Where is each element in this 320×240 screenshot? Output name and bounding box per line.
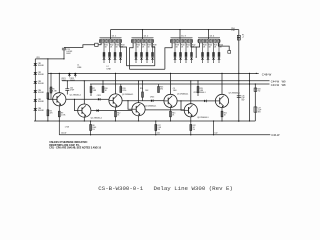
diode CR2	[34, 72, 44, 76]
resistor R8a	[102, 81, 108, 93]
node A junction 2	[63, 58, 64, 59]
resistor R7	[90, 84, 97, 96]
wire R9 to H7	[58, 121, 60, 135]
wire W2 Q2 to Q4	[91, 110, 132, 112]
node H4 V4 junction	[238, 80, 239, 81]
svg-text:2700: 2700	[122, 90, 126, 92]
svg-text:DL 3: DL 3	[181, 36, 186, 38]
pin DL1-2	[103, 40, 105, 42]
resistor R38 column under DL2	[151, 43, 156, 63]
node DL3 out stub	[196, 57, 197, 58]
svg-text:47UF: 47UF	[70, 90, 74, 92]
note text block	[49, 141, 101, 149]
wire collector to H4	[138, 81, 140, 103]
wire input to DL1	[64, 45, 95, 48]
transistor Q7	[215, 93, 239, 108]
wire collector to H3	[58, 73, 60, 92]
pin DL4-3	[204, 40, 206, 42]
node H6 emitter junction	[59, 120, 60, 121]
svg-text:LINE: LINE	[77, 67, 82, 69]
node H6 213 junction	[213, 120, 214, 121]
svg-text:CR11: CR11	[97, 95, 101, 97]
pin DL1-3	[106, 40, 108, 42]
resistor R8	[90, 121, 97, 135]
wire DL1 feed drop	[110, 30, 112, 40]
wire V5 trunk	[249, 73, 251, 121]
pin DL4-8	[217, 40, 219, 42]
wire bus H5	[90, 83, 270, 85]
node H6 V2 junction	[47, 120, 48, 121]
wire collector to H3	[221, 73, 223, 94]
wire DL1 out step	[120, 43, 127, 66]
pin DL4-7	[215, 40, 217, 42]
connector J1 box	[95, 43, 98, 46]
resistor R32 column under DL1	[108, 43, 113, 63]
resistor R37 column under DL2	[146, 43, 151, 63]
resistor R41 column under DL3	[185, 43, 190, 63]
resistor R14	[140, 81, 149, 101]
transistor Q5	[164, 94, 188, 108]
resistor R3	[47, 89, 54, 99]
node H4 R14 junction	[142, 80, 143, 81]
diode CR3	[34, 81, 44, 85]
node H3 V4 junction	[238, 73, 239, 74]
svg-text:750: 750	[231, 30, 234, 32]
resistor R5	[50, 73, 58, 99]
svg-text:C48-W: C48-W	[262, 73, 272, 77]
svg-text:CR1 - CR6 ARE 1N4148; SEE NOTE: CR1 - CR6 ARE 1N4148; SEE NOTES 3 AND 10	[49, 147, 101, 150]
svg-text:C42: C42	[214, 133, 217, 135]
pin DL2-7	[148, 40, 150, 42]
wire V6 trunk	[254, 84, 256, 121]
pin DL4-4	[207, 40, 209, 42]
pin DL3-1	[171, 40, 173, 42]
capacitor C47	[254, 107, 261, 114]
svg-text:Q4 2N3064-1: Q4 2N3064-1	[145, 105, 156, 107]
svg-text:1300: 1300	[173, 90, 177, 92]
resistor R4	[47, 110, 52, 116]
node H3 collector junction	[59, 73, 60, 74]
delay line DL2 body	[132, 39, 154, 43]
node H7 R22 junction	[190, 134, 191, 135]
diode CR4	[34, 90, 44, 94]
wire DL3 out step	[191, 43, 196, 57]
diode CR13	[151, 99, 153, 102]
transistor Q3	[109, 94, 133, 107]
svg-text:470: 470	[50, 113, 53, 115]
node H3 collector junction	[170, 73, 171, 74]
pin DL4-2	[201, 40, 203, 42]
svg-text:UNLESS OTHERWISE INDICATED:: UNLESS OTHERWISE INDICATED:	[49, 141, 88, 144]
resistor R35 column under DL2	[135, 43, 140, 63]
delay line DL3 body	[171, 39, 193, 43]
svg-text:CR1: CR1	[36, 57, 39, 59]
capacitor C23	[62, 48, 73, 59]
wire diode chain trunk	[34, 59, 36, 121]
node V2 base junction	[47, 99, 48, 100]
resistor R13	[120, 84, 126, 93]
capacitor C45	[237, 95, 245, 101]
node H4 collector junction	[190, 80, 191, 81]
wire collector to H4	[190, 81, 192, 104]
net label C48-W	[256, 73, 257, 74]
resistor R31 column under DL1	[103, 43, 108, 63]
wire DL3 feed drop	[179, 30, 181, 40]
wire DL2 feed drop	[142, 30, 144, 40]
svg-text:DL 4: DL 4	[210, 36, 215, 38]
pin DL2-4	[140, 40, 142, 42]
svg-text:1N4148: 1N4148	[38, 92, 44, 94]
node W3 Q4 branch	[127, 100, 128, 101]
wire rail H6	[34, 120, 255, 122]
svg-text:1N964: 1N964	[70, 80, 75, 82]
resistor R42 column under DL3	[190, 43, 195, 63]
pin DL2-6	[146, 40, 148, 42]
svg-text:1N4148: 1N4148	[38, 83, 44, 85]
svg-text:W9: W9	[282, 79, 286, 83]
svg-text:CS-B-W300-0-1 Delay Line W30: CS-B-W300-0-1 Delay Line W300 (Rev E)	[98, 185, 233, 192]
node H4 V5 junction	[249, 80, 250, 81]
diode CR12	[97, 109, 99, 112]
svg-text:Q2 2N3064-1: Q2 2N3064-1	[91, 117, 102, 119]
wire Q1 base	[48, 98, 53, 100]
pin DL2-8	[151, 40, 153, 42]
pin DL1-6	[114, 40, 116, 42]
node H4 R8a junction	[102, 80, 103, 81]
capacitor C40	[65, 81, 74, 95]
transistor Q1	[53, 93, 81, 106]
pin DL2-1	[132, 40, 134, 42]
pin DL1-4	[108, 40, 110, 42]
pin DL2-3	[138, 40, 140, 42]
delay line DL4 body	[198, 39, 220, 43]
wire rail H7	[59, 134, 270, 136]
wire W1b diode to Q3	[100, 98, 109, 100]
pin DL2-2	[135, 40, 137, 42]
diode CR1	[34, 63, 44, 67]
pin DL1-1	[100, 40, 102, 42]
wire bus H2b	[130, 68, 165, 70]
wire DL4 in jog	[196, 43, 199, 47]
node DL2 top junction	[142, 29, 143, 30]
diode CR11	[98, 98, 100, 101]
resistor R15 emitter	[170, 108, 176, 122]
svg-text:1N964: 1N964	[61, 80, 66, 82]
pin DL1-5	[111, 40, 113, 42]
node H5 V4 junction	[238, 83, 239, 84]
svg-text:1N4148: 1N4148	[38, 110, 44, 112]
resistor R9 emitter	[58, 106, 66, 121]
wire DL4 feed drop	[208, 30, 210, 40]
diode CR6	[34, 108, 44, 112]
connector P1 box upper	[237, 35, 240, 37]
transistor Q6	[184, 104, 208, 119]
wire Q2 base drop	[75, 99, 78, 110]
svg-text:DL 2: DL 2	[144, 36, 149, 38]
node H6 R17 junction	[155, 120, 156, 121]
node DL3 top junction	[179, 29, 180, 30]
connector P2 box	[228, 51, 231, 54]
wire Q6 column to H7	[213, 121, 215, 135]
resistor R45 column under DL4	[212, 43, 217, 63]
node H6 V5 junction	[249, 120, 250, 121]
wire W4 Q4 to Q6	[145, 109, 184, 111]
delay line DL4 lid	[198, 37, 220, 39]
svg-text:RESISTORS ARE 1/4W; 5%: RESISTORS ARE 1/4W; 5%	[49, 144, 79, 147]
resistor R46 column under DL4	[218, 43, 223, 63]
node H6 emitter junction	[115, 120, 116, 121]
wire DL2 in step	[130, 43, 134, 69]
diode CR22	[70, 73, 77, 82]
wire collector to H3	[115, 73, 117, 94]
node H3 V5 junction	[249, 73, 250, 74]
resistor R44 column under DL4	[207, 43, 212, 63]
node H5 V5 junction	[249, 83, 250, 84]
node H7 213 junction	[213, 134, 214, 135]
svg-text:LINE: LINE	[107, 69, 112, 71]
resistor R34 column under DL1	[119, 43, 124, 63]
wire DL3 in step	[165, 43, 172, 69]
wire collector to H4	[83, 81, 85, 104]
wire right trunk V4	[238, 30, 240, 122]
svg-text:R14: R14	[140, 88, 143, 90]
node H6 R8 junction	[90, 120, 91, 121]
delay line DL3 lid	[171, 37, 193, 39]
delay line DL1 body	[100, 39, 122, 43]
pin DL3-4	[179, 40, 181, 42]
svg-text:Q3 2N3064-1: Q3 2N3064-1	[122, 94, 133, 96]
node H6 emitter junction	[170, 120, 171, 121]
pin DL3-7	[187, 40, 189, 42]
diode CR21	[61, 73, 70, 82]
delay line DL1 lid	[100, 37, 122, 39]
resistor R40 column under DL3	[179, 43, 184, 63]
pin DL3-8	[190, 40, 192, 42]
node H3 R5 junction	[50, 73, 51, 74]
resistor R21 emitter	[221, 108, 227, 122]
resistor R43 column under DL4	[201, 43, 206, 63]
node H4 collector junction	[84, 80, 85, 81]
svg-text:Q5 2N3064-1: Q5 2N3064-1	[177, 94, 188, 96]
resistor R22 column	[190, 121, 196, 135]
node H4 C40 junction	[67, 80, 68, 81]
wire DL4 out step	[218, 43, 229, 51]
node H3 collector junction	[221, 73, 222, 74]
wire bus H3	[48, 72, 259, 74]
wire node A horizontal	[35, 58, 64, 60]
resistor R17	[155, 121, 162, 135]
svg-text:C43-W: C43-W	[271, 83, 280, 87]
pin DL3-5	[182, 40, 184, 42]
delay line DL2 lid	[132, 37, 154, 39]
node W5 Q6 branch	[180, 100, 181, 101]
node H3 junction CR22	[75, 73, 76, 74]
wire W3 Q3 to Q5	[122, 100, 151, 102]
node A junction	[47, 58, 48, 59]
wire J1 to DL1 pin1	[98, 43, 101, 45]
node H6 emitter junction	[84, 120, 85, 121]
svg-text:C41: C41	[157, 133, 160, 135]
wire DL2 out step	[152, 43, 155, 66]
resistor R39 column under DL3	[174, 43, 179, 63]
svg-text:1N4148: 1N4148	[38, 65, 44, 67]
svg-text:W8: W8	[282, 83, 286, 87]
svg-text:CR14 1N3064-1: CR14 1N3064-1	[193, 92, 205, 94]
pin DL1-8	[119, 40, 121, 42]
resistor R33 column under DL1	[114, 43, 119, 63]
connector P1 box lower	[237, 38, 240, 40]
node H6 emitter junction	[190, 120, 191, 121]
svg-text:CR13: CR13	[150, 97, 154, 99]
svg-text:Q1 2N3064-1: Q1 2N3064-1	[70, 94, 81, 96]
node W1 Q2 branch	[74, 99, 75, 100]
svg-text:1N4148: 1N4148	[38, 74, 44, 76]
resistor R36 column under DL2	[140, 43, 145, 63]
resistor R24	[254, 88, 260, 93]
svg-text:-4: -4	[242, 36, 244, 38]
wire collector to H3	[170, 73, 172, 94]
node H3 collector junction	[115, 73, 116, 74]
node H7 R17 junction	[155, 134, 156, 135]
node H4 collector junction	[138, 80, 139, 81]
svg-text:DL 1: DL 1	[112, 36, 117, 38]
node H3 junction CR21	[69, 73, 70, 74]
transistor Q4	[132, 103, 156, 116]
pin DL3-3	[177, 40, 179, 42]
svg-text:C41-W: C41-W	[61, 133, 67, 135]
resistor R12 emitter	[115, 107, 121, 121]
wire Q4 base branch	[128, 101, 132, 110]
svg-text:C46-W: C46-W	[271, 133, 280, 137]
wire emitter to H6	[83, 117, 85, 121]
wire Q6 base branch	[181, 101, 184, 110]
resistor R16	[158, 84, 164, 93]
svg-text:750: 750	[257, 91, 260, 93]
diode CR5	[34, 99, 44, 103]
node DL4 top junction	[208, 29, 209, 30]
wire W1 Q1 to Q3	[66, 98, 98, 100]
wire W3b diode to Q5	[153, 100, 164, 102]
pin DL3-6	[185, 40, 187, 42]
wire top bus	[111, 29, 239, 31]
diode CR14	[204, 100, 206, 103]
wire bus H4	[62, 80, 270, 82]
wire bus H2a	[127, 65, 155, 67]
node H6 emitter junction	[221, 120, 222, 121]
transistor Q2	[78, 104, 102, 119]
pin DL4-1	[199, 40, 201, 42]
pin DL4-6	[212, 40, 214, 42]
wire emitter to H6	[190, 117, 192, 121]
wire W5 Q5 to Q7	[177, 100, 204, 102]
svg-text:C44-W: C44-W	[271, 79, 280, 83]
node H7 R8 junction	[90, 134, 91, 135]
wire V2 trunk	[47, 59, 49, 121]
pin DL3-2	[174, 40, 176, 42]
node H6 V4 junction	[238, 120, 239, 121]
pin DL2-5	[143, 40, 145, 42]
node H4 R19 junction	[197, 80, 198, 81]
svg-text:Q6 2N3064-1: Q6 2N3064-1	[197, 117, 208, 119]
wire emitter to H6	[138, 116, 140, 121]
pin DL4-5	[209, 40, 211, 42]
svg-text:1N4148: 1N4148	[38, 101, 44, 103]
svg-text:390: 390	[160, 89, 163, 91]
resistor R19	[197, 81, 204, 96]
pin DL1-7	[116, 40, 118, 42]
node H6 emitter junction	[138, 120, 139, 121]
wire W5b diode to Q7	[206, 100, 215, 102]
svg-text:Q7 2N3064-1: Q7 2N3064-1	[229, 93, 240, 95]
